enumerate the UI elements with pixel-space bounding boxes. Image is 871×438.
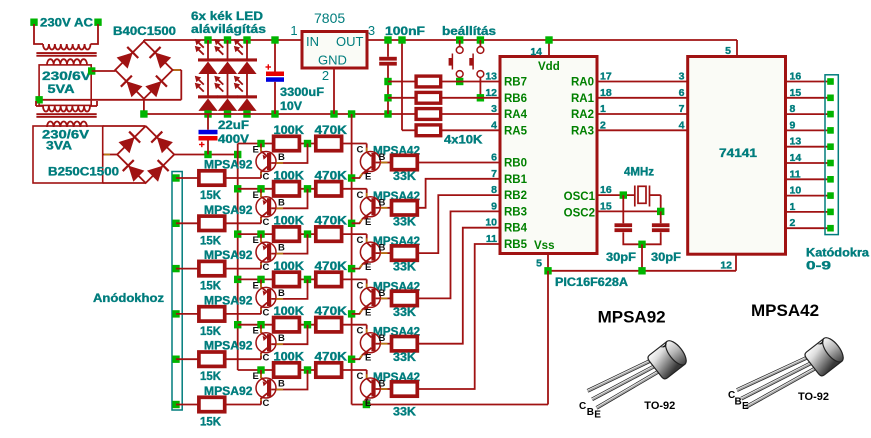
svg-text:B: B	[735, 397, 742, 408]
svg-text:33K: 33K	[393, 352, 417, 364]
svg-text:IN: IN	[306, 34, 319, 49]
svg-text:GND: GND	[318, 53, 347, 68]
svg-text:E: E	[253, 326, 259, 337]
svg-text:100K: 100K	[274, 352, 305, 364]
svg-text:C: C	[357, 371, 364, 382]
svg-text:7: 7	[679, 103, 685, 115]
svg-text:Katódokra: Katódokra	[806, 248, 870, 260]
svg-text:E: E	[365, 307, 371, 318]
svg-text:12: 12	[485, 87, 497, 99]
svg-text:14: 14	[530, 46, 542, 58]
svg-text:3: 3	[491, 103, 497, 115]
svg-text:MPSA92: MPSA92	[598, 308, 666, 327]
svg-text:OSC1: OSC1	[564, 191, 596, 203]
svg-text:16: 16	[600, 184, 612, 196]
svg-text:B40C1500: B40C1500	[113, 26, 176, 38]
svg-text:4: 4	[679, 119, 685, 131]
svg-text:MPSA92: MPSA92	[204, 295, 253, 307]
svg-text:C: C	[357, 235, 364, 246]
svg-text:B: B	[278, 197, 285, 208]
svg-text:RA0: RA0	[571, 77, 594, 89]
svg-text:33K: 33K	[393, 307, 417, 319]
svg-text:470K: 470K	[315, 170, 348, 182]
svg-text:E: E	[365, 398, 371, 409]
svg-text:2: 2	[790, 217, 796, 229]
svg-text:C: C	[357, 280, 364, 291]
svg-text:30pF: 30pF	[651, 252, 681, 264]
svg-text:RB5: RB5	[504, 239, 528, 251]
svg-text:15K: 15K	[200, 417, 222, 429]
svg-text:8: 8	[790, 103, 796, 115]
svg-text:E: E	[253, 235, 259, 246]
svg-text:RB7: RB7	[504, 77, 527, 89]
svg-text:33K: 33K	[393, 262, 417, 274]
svg-text:0-9: 0-9	[806, 261, 831, 273]
svg-text:RA5: RA5	[504, 125, 528, 137]
svg-text:470K: 470K	[315, 352, 348, 364]
svg-text:E: E	[253, 190, 259, 201]
svg-text:15K: 15K	[200, 190, 222, 202]
svg-text:4x10K: 4x10K	[444, 135, 483, 147]
svg-text:C: C	[263, 353, 270, 364]
svg-text:E: E	[253, 145, 259, 156]
svg-text:E: E	[365, 262, 371, 273]
svg-text:MPSA92: MPSA92	[204, 250, 253, 262]
svg-text:30pF: 30pF	[606, 252, 636, 264]
svg-text:RB1: RB1	[504, 174, 528, 186]
svg-text:E: E	[594, 410, 601, 421]
svg-text:1: 1	[790, 201, 796, 213]
svg-text:MPSA92: MPSA92	[204, 341, 253, 353]
svg-text:12: 12	[720, 260, 732, 272]
svg-text:B: B	[278, 288, 285, 299]
svg-text:PIC16F628A: PIC16F628A	[555, 277, 628, 289]
svg-text:470K: 470K	[315, 306, 348, 318]
svg-text:74141: 74141	[719, 148, 758, 160]
svg-text:33K: 33K	[393, 407, 417, 419]
svg-text:E: E	[365, 353, 371, 364]
svg-text:B: B	[587, 407, 594, 418]
svg-text:3300uF: 3300uF	[280, 87, 324, 99]
svg-text:alávilágítás: alávilágítás	[191, 24, 266, 36]
svg-text:OSC2: OSC2	[564, 207, 595, 219]
svg-text:C: C	[357, 190, 364, 201]
svg-text:15K: 15K	[200, 281, 222, 293]
svg-text:OUT: OUT	[336, 34, 364, 49]
svg-text:33K: 33K	[393, 216, 417, 228]
svg-text:E: E	[742, 401, 749, 412]
svg-text:B: B	[278, 379, 285, 390]
svg-text:RB0: RB0	[504, 158, 527, 170]
svg-text:C: C	[357, 145, 364, 156]
svg-text:B: B	[379, 152, 386, 163]
svg-text:B: B	[379, 243, 386, 254]
svg-text:10V: 10V	[280, 101, 302, 113]
svg-text:B: B	[278, 333, 285, 344]
svg-text:beállítás: beállítás	[442, 26, 496, 38]
svg-text:RB6: RB6	[504, 93, 527, 105]
svg-text:15K: 15K	[200, 371, 222, 383]
svg-text:B: B	[379, 379, 386, 390]
svg-text:E: E	[365, 217, 371, 228]
svg-text:B250C1500: B250C1500	[48, 167, 119, 179]
svg-text:100nF: 100nF	[385, 26, 425, 38]
svg-text:3VA: 3VA	[46, 141, 72, 153]
svg-text:B: B	[379, 197, 386, 208]
svg-text:100K: 100K	[274, 125, 305, 137]
svg-text:15K: 15K	[200, 235, 222, 247]
svg-text:TO-92: TO-92	[644, 400, 675, 412]
svg-text:22uF: 22uF	[218, 120, 249, 132]
svg-text:13: 13	[485, 71, 497, 83]
svg-text:RA1: RA1	[571, 93, 595, 105]
svg-text:15: 15	[790, 87, 802, 99]
svg-text:230V AC: 230V AC	[40, 18, 93, 30]
svg-text:100K: 100K	[274, 216, 305, 228]
svg-text:15: 15	[600, 200, 612, 212]
svg-text:RB2: RB2	[504, 190, 527, 202]
svg-text:MPSA92: MPSA92	[204, 160, 253, 172]
svg-text:470K: 470K	[315, 125, 348, 137]
svg-text:4: 4	[491, 119, 497, 131]
svg-text:E: E	[253, 280, 259, 291]
svg-text:C: C	[357, 326, 364, 337]
svg-text:100K: 100K	[274, 170, 305, 182]
svg-text:E: E	[253, 371, 259, 382]
svg-text:1: 1	[600, 103, 606, 115]
svg-text:RB4: RB4	[504, 223, 528, 235]
svg-text:6: 6	[679, 87, 685, 99]
svg-text:MPSA42: MPSA42	[751, 301, 819, 320]
svg-text:E: E	[365, 172, 371, 183]
svg-text:TO-92: TO-92	[798, 391, 829, 403]
svg-text:10: 10	[790, 185, 802, 197]
svg-text:13: 13	[790, 136, 802, 148]
svg-text:2: 2	[322, 68, 329, 83]
svg-text:100K: 100K	[274, 306, 305, 318]
svg-text:1: 1	[290, 23, 297, 38]
svg-text:B: B	[278, 243, 285, 254]
svg-text:9: 9	[790, 119, 796, 131]
svg-text:3: 3	[368, 23, 375, 38]
svg-text:11: 11	[790, 168, 801, 180]
svg-text:B: B	[278, 152, 285, 163]
svg-text:C: C	[263, 172, 270, 183]
svg-text:230/6V: 230/6V	[42, 71, 91, 83]
svg-text:RA4: RA4	[504, 109, 528, 121]
svg-text:Vss: Vss	[534, 240, 554, 252]
svg-text:16: 16	[790, 71, 802, 83]
svg-text:Anódokhoz: Anódokhoz	[93, 293, 164, 305]
svg-text:470K: 470K	[315, 261, 348, 273]
svg-text:Vdd: Vdd	[538, 61, 560, 73]
svg-text:MPSA92: MPSA92	[204, 386, 253, 398]
svg-text:6x kék LED: 6x kék LED	[191, 11, 263, 23]
svg-text:C: C	[579, 401, 586, 412]
svg-text:C: C	[263, 217, 270, 228]
svg-text:C: C	[263, 262, 270, 273]
svg-text:17: 17	[600, 71, 612, 83]
svg-text:14: 14	[790, 152, 802, 164]
svg-text:C: C	[263, 307, 270, 318]
svg-text:100K: 100K	[274, 261, 305, 273]
svg-text:B: B	[379, 333, 386, 344]
svg-text:15K: 15K	[200, 326, 222, 338]
svg-text:RA3: RA3	[571, 125, 594, 137]
svg-text:33K: 33K	[393, 171, 417, 183]
svg-text:5: 5	[536, 258, 542, 270]
svg-text:C: C	[263, 398, 270, 409]
svg-text:MPSA92: MPSA92	[204, 205, 253, 217]
svg-text:RB3: RB3	[504, 206, 527, 218]
svg-text:7805: 7805	[314, 10, 345, 26]
svg-text:2: 2	[600, 119, 606, 131]
svg-text:B: B	[379, 288, 386, 299]
svg-text:18: 18	[600, 87, 612, 99]
svg-text:5VA: 5VA	[48, 84, 75, 96]
svg-text:4MHz: 4MHz	[624, 167, 654, 179]
svg-text:3: 3	[679, 71, 685, 83]
svg-text:RA2: RA2	[571, 109, 594, 121]
svg-text:470K: 470K	[315, 216, 348, 228]
